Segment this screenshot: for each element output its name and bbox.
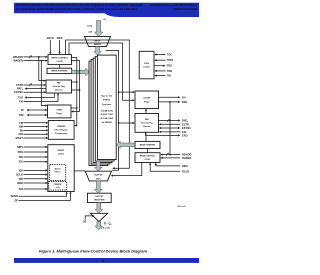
header line 1 right — [150, 3, 197, 7]
svg-text:Programming: Programming — [55, 133, 68, 135]
label ID2 — [19, 168, 24, 172]
svg-text:MRS: MRS — [17, 145, 23, 149]
output data block arrow — [95, 222, 103, 230]
wire ID0 — [24, 156, 48, 158]
label REN — [182, 164, 188, 168]
write pointers block — [47, 68, 72, 73]
wire PRS — [24, 151, 48, 153]
label FF — [21, 108, 25, 112]
svg-text:EXI: EXI — [182, 130, 186, 134]
svg-text:MAST: MAST — [16, 136, 24, 140]
write pointers to queues arrow — [72, 68, 90, 75]
svg-text:WEN: WEN — [57, 37, 63, 40]
figure drawing number — [177, 205, 186, 208]
svg-text:PAE/PAF: PAE/PAF — [57, 125, 66, 128]
svg-text:Queues: Queues — [102, 104, 113, 106]
svg-text:5: 5 — [168, 153, 169, 155]
wire EXO — [146, 132, 181, 136]
wire flag monitor to OV/OR flags — [145, 109, 147, 114]
svg-text:WRITE CONTROL: WRITE CONTROL — [51, 57, 69, 59]
wire write-side to OV/OR flags — [69, 43, 135, 101]
label BM — [19, 125, 23, 129]
svg-text:OUTPUT: OUTPUT — [95, 196, 104, 198]
wire demux to flag monitors — [106, 51, 120, 171]
wire branch to PAE flag monitor — [119, 122, 135, 124]
svg-text:FSYNC: FSYNC — [14, 90, 23, 94]
header line 1 left — [16, 3, 143, 7]
wire PAE output — [159, 101, 181, 103]
svg-text:General Flag: General Flag — [141, 123, 153, 125]
svg-text:PAF: PAF — [19, 113, 24, 117]
svg-text:Offset Register: Offset Register — [54, 129, 68, 132]
label ID3 — [19, 187, 24, 191]
label ID1 — [19, 160, 24, 164]
data input block arrow — [94, 21, 103, 37]
label SENO — [11, 194, 18, 198]
wire SENI — [24, 182, 48, 184]
label WRADD — [13, 55, 23, 59]
label RDADD — [182, 153, 191, 157]
wire OW — [24, 133, 49, 135]
svg-text:5: 5 — [31, 55, 32, 57]
svg-text:Qn - Q0: Qn - Q0 — [104, 223, 112, 226]
wire write control to write pointers — [59, 65, 61, 69]
label PAFn — [17, 87, 23, 91]
svg-text:ID0: ID0 — [19, 155, 24, 159]
svg-text:LOGIC: LOGIC — [58, 154, 65, 156]
svg-text:REN: REN — [182, 164, 188, 168]
wire BM — [24, 126, 49, 128]
wire ID1 — [24, 161, 48, 163]
wire PAFn — [25, 88, 46, 90]
wire MAST — [24, 137, 49, 139]
svg-text:EXO: EXO — [182, 133, 187, 137]
wire FF/IR flags right stub — [71, 107, 77, 109]
svg-text:OE: OE — [83, 220, 87, 224]
label MAST — [16, 136, 24, 140]
svg-text:LOGIC: LOGIC — [145, 159, 152, 161]
svg-text:PRS: PRS — [18, 150, 24, 154]
wire ESTR — [159, 123, 181, 125]
wire WRADD — [24, 55, 48, 58]
label OV — [182, 95, 186, 99]
label x18 bus width — [87, 26, 92, 28]
label Qn — [104, 223, 112, 226]
svg-text:8: 8 — [31, 83, 32, 85]
header line 2 left — [16, 7, 137, 11]
svg-text:FIFO: FIFO — [103, 100, 111, 102]
svg-text:PAEn: PAEn — [182, 118, 188, 122]
label TCK — [167, 54, 172, 57]
label OW — [19, 132, 24, 136]
label ID0 — [19, 155, 24, 159]
page number — [102, 259, 104, 263]
queues to output mux arrow — [95, 161, 103, 171]
svg-text:IW: IW — [20, 128, 24, 132]
svg-text:SCLK: SCLK — [16, 173, 23, 177]
svg-text:n bit: n bit — [56, 186, 60, 189]
mux to output register arrow — [95, 181, 103, 193]
wire WRADD drop to flag monitor — [39, 57, 46, 82]
label TDI — [167, 75, 171, 78]
svg-text:6: 6 — [102, 259, 104, 263]
label TMS — [167, 70, 172, 73]
svg-text:1,048,576: 1,048,576 — [100, 109, 114, 112]
label PAE — [182, 100, 187, 104]
wire read pointers to read control — [147, 149, 149, 153]
svg-text:FF: FF — [21, 108, 25, 112]
wire ID3 — [24, 188, 48, 190]
wire FM — [24, 122, 49, 124]
wire FXI — [24, 93, 60, 101]
svg-text:8: 8 — [169, 119, 170, 121]
label EXO — [182, 133, 187, 137]
svg-text:Up to 16: Up to 16 — [101, 94, 113, 97]
svg-text:Monitor: Monitor — [143, 125, 150, 128]
label output bus width — [101, 228, 110, 230]
label FSYNC — [14, 90, 23, 94]
label SDI — [19, 177, 24, 181]
wire RCLK — [149, 163, 180, 172]
output register block — [88, 193, 112, 202]
svg-text:Flags: Flags — [57, 113, 63, 115]
svg-text:Flags: Flags — [144, 101, 150, 103]
svg-text:PAE: PAE — [182, 100, 187, 104]
demux to queue stack arrow — [94, 47, 102, 56]
label RADEN — [182, 156, 191, 160]
label OE — [83, 220, 87, 224]
wire FSYNC — [24, 91, 47, 93]
svg-text:SENO: SENO — [11, 194, 18, 198]
PDR/PDF dashed box — [49, 182, 67, 191]
svg-text:TRST: TRST — [167, 59, 174, 62]
footer bar — [14, 258, 199, 263]
svg-text:FSTR: FSTR — [16, 83, 23, 87]
tri-state output buffer Q1 — [90, 213, 107, 221]
svg-text:WCLK: WCLK — [47, 37, 54, 40]
svg-text:SENI: SENI — [17, 181, 23, 185]
label FXI — [19, 99, 23, 103]
wire write-side to output mux — [66, 40, 130, 169]
wire TDO — [154, 65, 166, 67]
label SCLK — [16, 173, 23, 177]
wire RADEN — [160, 157, 180, 159]
label SENI — [17, 181, 23, 185]
svg-text:Offsets: Offsets — [55, 171, 61, 174]
svg-text:Mark &: Mark & — [55, 168, 62, 170]
wire FSTR — [24, 83, 47, 86]
svg-text:OV/OR: OV/OR — [143, 98, 150, 100]
label Dn — [104, 19, 107, 21]
label TDO — [167, 65, 172, 68]
read pointers to queues arrow — [116, 141, 134, 148]
label DF — [15, 198, 19, 202]
svg-text:(x9): (x9) — [88, 31, 92, 33]
wire read control to output mux — [111, 163, 142, 177]
svg-text:FXI: FXI — [19, 99, 23, 103]
svg-text:ID1: ID1 — [19, 160, 24, 164]
svg-text:LOGIC: LOGIC — [143, 67, 150, 69]
read control block — [135, 153, 160, 163]
svg-text:FF/IR: FF/IR — [57, 109, 63, 111]
svg-text:JTAG: JTAG — [144, 62, 150, 65]
svg-text:(x9, x18): (x9, x18) — [101, 228, 110, 230]
svg-text:FM: FM — [19, 121, 23, 125]
wire TMS — [154, 70, 165, 72]
offset programming block — [48, 121, 74, 140]
label FM — [19, 121, 23, 125]
svg-text:LOGIC: LOGIC — [57, 61, 64, 63]
svg-text:DF: DF — [15, 198, 19, 202]
wire PAEn — [159, 119, 181, 122]
PAE general flag monitor block — [135, 114, 159, 133]
label FXO — [18, 95, 23, 99]
header line 2 right — [173, 7, 197, 11]
label PRS — [18, 150, 24, 154]
wire FF output — [27, 109, 48, 111]
wire PAF output — [27, 114, 48, 116]
wire SENO — [19, 192, 68, 197]
wire FXO — [25, 93, 55, 99]
svg-text:FXO: FXO — [18, 95, 23, 99]
wire WCLK — [49, 40, 51, 54]
svg-text:READ CONTROL: READ CONTROL — [140, 155, 156, 158]
svg-text:DEMUX: DEMUX — [94, 44, 102, 46]
label IW — [20, 128, 24, 132]
label RCLK — [182, 169, 189, 173]
wire IW — [24, 129, 49, 131]
svg-text:TEMPERATURE RANGES: TEMPERATURE RANGES — [173, 7, 197, 11]
svg-text:TCK: TCK — [167, 54, 172, 57]
wire TDI — [154, 75, 165, 77]
register to buffer arrow — [95, 203, 103, 214]
label FSTR — [16, 83, 23, 87]
label EXI — [182, 130, 186, 134]
svg-text:INPUT: INPUT — [95, 40, 102, 42]
label WADEN — [13, 59, 23, 63]
OV/OR flags block — [135, 91, 159, 109]
svg-text:MUX: MUX — [96, 178, 101, 180]
svg-text:ID3: ID3 — [19, 187, 24, 191]
svg-text:REGISTER: REGISTER — [94, 199, 105, 201]
label x9 bus width — [88, 31, 92, 33]
svg-text:TDO: TDO — [167, 65, 172, 68]
wire write control to offset programming — [71, 58, 77, 127]
svg-text:TDI: TDI — [167, 75, 171, 78]
wire SDI — [24, 178, 48, 180]
svg-text:ESTR: ESTR — [182, 122, 189, 126]
wire ESYNC — [159, 127, 181, 129]
wire REN — [155, 163, 181, 166]
wire EXI — [159, 131, 181, 133]
svg-text:RESET: RESET — [58, 150, 65, 152]
wire ID2 — [24, 169, 48, 171]
wire PAE to PAEn bus — [169, 102, 171, 156]
wire branch to OV/OR flags — [119, 91, 135, 93]
svg-text:Monitor: Monitor — [55, 89, 63, 92]
svg-text:OUTPUT: OUTPUT — [94, 175, 103, 177]
dual-port memory queue stack — [89, 55, 116, 165]
output mux U2 — [85, 171, 111, 181]
label TRST — [167, 59, 174, 62]
write control block — [48, 55, 71, 65]
label PAF — [19, 113, 24, 117]
wire OE — [85, 215, 94, 220]
read pointers block — [135, 141, 160, 148]
PAF general flag monitor block — [46, 80, 72, 93]
svg-text:READ POINTERS: READ POINTERS — [140, 144, 156, 147]
svg-text:RADEN: RADEN — [182, 156, 191, 160]
svg-text:ESYNC: ESYNC — [182, 126, 191, 130]
label WCLK — [47, 37, 54, 40]
wire SCLK — [24, 174, 48, 176]
svg-text:OV: OV — [182, 95, 186, 99]
wire MRS — [24, 146, 48, 148]
wire flag monitor right stubs — [72, 81, 81, 91]
svg-text:General Flag: General Flag — [53, 86, 66, 88]
label ESTR — [182, 122, 189, 126]
svg-text:WRITE POINTERS: WRITE POINTERS — [51, 71, 68, 73]
svg-text:ID2: ID2 — [19, 168, 24, 172]
figure caption — [39, 250, 147, 254]
wire flag monitor to read pointers — [145, 132, 147, 141]
svg-text:RCLK: RCLK — [182, 169, 189, 173]
wire WADEN — [24, 60, 48, 62]
FF/IR flags block — [48, 105, 72, 118]
reset logic block — [48, 145, 74, 192]
wire RDADD — [160, 153, 180, 156]
svg-text:(x18): (x18) — [87, 26, 92, 28]
svg-text:BM: BM — [19, 125, 23, 129]
svg-text:(16 QUEUES) 18 BIT WIDE CONFIG: (16 QUEUES) 18 BIT WIDE CONFIGURATION 1,… — [16, 7, 137, 11]
svg-text:WADEN: WADEN — [13, 59, 23, 63]
wire TRST — [154, 59, 165, 61]
wire reset logic to output mux — [74, 170, 85, 172]
label WEN — [57, 37, 63, 40]
wire write control to FF/IR flags — [71, 61, 79, 113]
wire OV output — [159, 96, 181, 98]
label PAEn — [182, 118, 188, 122]
svg-text:2,097,152: 2,097,152 — [100, 114, 114, 116]
svg-text:Figure 1. Multi-Queue Flow-Con: Figure 1. Multi-Queue Flow-Control Devic… — [39, 250, 147, 254]
default offsets dashed box — [50, 165, 66, 181]
queue stack labels — [100, 94, 114, 124]
wire TCK — [154, 53, 165, 55]
label ESYNC — [182, 126, 191, 130]
svg-text:Dn: Dn — [104, 19, 107, 21]
wire DF — [19, 192, 72, 201]
header blue banner — [14, 3, 199, 17]
label MRS — [17, 145, 23, 149]
svg-text:bit SRAM: bit SRAM — [102, 121, 112, 124]
svg-text:OW: OW — [19, 132, 24, 136]
svg-text:4,194,304: 4,194,304 — [100, 117, 114, 120]
svg-text:TMS: TMS — [167, 70, 172, 73]
wire WEN — [59, 40, 61, 54]
wire WADEN drop to FF/IR flags — [41, 61, 47, 107]
svg-text:6884 drw01: 6884 drw01 — [177, 205, 186, 208]
JTAG logic block — [139, 51, 154, 79]
svg-text:SDI: SDI — [19, 177, 24, 181]
svg-text:PDR/PDF: PDR/PDF — [54, 184, 63, 186]
svg-text:WRADD: WRADD — [13, 55, 23, 59]
input demux U1 — [85, 36, 111, 46]
